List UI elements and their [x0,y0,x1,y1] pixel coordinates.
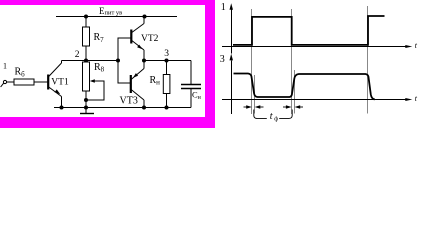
magenta frame bottom band [0,117,215,128]
timing gridline at first rise [251,9,253,114]
timing gridline fall end marker [254,75,256,114]
waveform 1 (input pulse) [233,16,385,45]
node: junction dot node2/VT2-VT3 bases [116,59,120,63]
arrowhead plot1 vertical axis [230,3,234,10]
ground symbol [80,108,94,114]
axis: plot3 horizontal t [222,99,407,101]
timing gridline at pulse fall [291,9,293,114]
dimension arrows tф rise [283,106,303,108]
wire: VT1 emitter down to ground rail [61,97,63,108]
svg-text:2: 2 [75,50,80,60]
arrowhead plot1 t axis [405,45,412,48]
svg-text:3: 3 [220,54,225,65]
svg-text:1: 1 [221,2,226,13]
wire: ground rail [54,107,191,109]
wire: VT2 collector to rail [143,17,145,24]
svg-text:ф: ф [274,116,278,123]
wire: Rб to VT1 base [34,81,48,83]
node: junction dot Rн bottom/ground rail [165,106,169,110]
arrowhead plot3 t axis [405,98,412,101]
axis: plot1 vertical [231,9,233,54]
transistor VT2 [131,24,158,51]
svg-text:t: t [270,111,273,122]
wire: +supply rail Eпит [56,16,177,18]
wire: VT3 collector down to ground rail [143,100,145,108]
resistor R8 (adjustable, rheostat-connected) [83,61,105,108]
wire: node2 down to VT3 base [118,61,131,84]
axis: plot1 horizontal t [222,46,407,48]
svg-text:1: 1 [3,62,7,71]
svg-text:VT3: VT3 [120,96,138,107]
timing gridline rise end marker [294,70,296,114]
node: junction dot node2/R7/R8 [84,59,88,63]
node: junction dot VT3 collector/ground [142,106,146,110]
magenta frame top band [0,0,215,5]
node: junction dot rail/R7 [84,15,88,19]
wire: VT1 collector up to node 2 [61,61,63,64]
svg-text:VT1: VT1 [51,77,69,87]
node: junction dot node3/Rн top [165,59,169,63]
node: junction dot R8/ground rail [84,106,88,110]
waveform plot 1 axes [222,9,407,54]
wire: VT2 emitter down to node 3 [143,50,145,61]
svg-text:3: 3 [164,49,169,59]
wire: R8 wiper loop [86,81,104,100]
node 1: input terminal [1,62,7,88]
resistor Rн (load) [150,61,170,108]
capacitor Cн (load) [181,85,202,102]
magenta frame right strip [205,0,215,128]
wire: VT3 emitter up to node 3 [143,61,145,69]
transistor VT1 [48,63,69,97]
node: junction dot rail/VT2 collector [143,15,147,19]
resistor R7 [83,17,105,61]
waveform plot 3 axes [222,61,407,115]
resistor Rб [14,67,34,86]
wire: node3 to Cн branch [190,61,192,85]
arrowhead plot3 vertical axis [230,54,234,61]
wire: node 2 horizontal [62,60,119,62]
svg-text:VT2: VT2 [141,34,159,44]
wire: input to Rб [7,81,14,83]
wiper arrowhead into R8 body [90,79,95,82]
waveform 3 (output) [234,74,375,100]
leader curve right to tф label [279,110,292,119]
wire: Cн bottom to ground rail [190,89,192,108]
timing gridline at second rise [367,6,369,114]
leader curve left to tф label [254,110,267,119]
node: junction dot VT1 emitter/ground rail [60,106,64,110]
wire: node2 up to VT2 base [118,38,131,61]
transistor VT3 (pnp) [120,69,145,107]
wire: node 3 horizontal [144,60,191,62]
node: junction dot R8 bottom/wiper loop [84,98,88,102]
axis: plot3 vertical [231,61,233,115]
node: junction dot VT2/VT3 emitters node3 [142,59,146,63]
dimension arrows tф fall [244,106,264,108]
